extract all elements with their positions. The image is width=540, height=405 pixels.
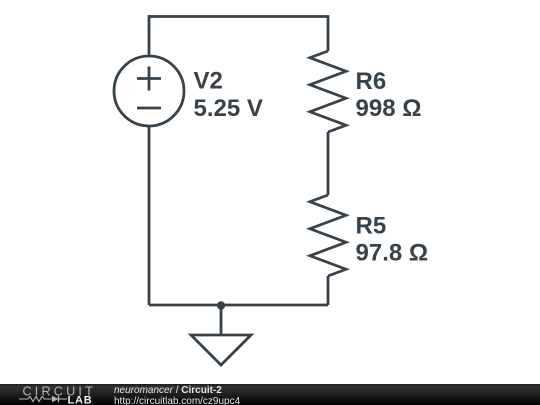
svg-text:998 Ω: 998 Ω [356, 95, 422, 122]
wire top rail [149, 15, 328, 18]
svg-text:neuromancer / Circuit-2: neuromancer / Circuit-2 [114, 385, 222, 396]
wire left bottom (V2 to bottom rail) [148, 126, 151, 305]
svg-text:http://circuitlab.com/cz9upc4: http://circuitlab.com/cz9upc4 [114, 396, 241, 405]
voltage source V2 [114, 56, 184, 126]
wire left top (top rail to V2) [148, 15, 151, 57]
svg-text:R6: R6 [356, 68, 387, 95]
logo diode [52, 396, 67, 402]
wire right top (top rail to R6) [327, 15, 330, 51]
wire ground stub [220, 305, 223, 335]
resistor R6 [310, 51, 346, 132]
resistor R5 [310, 195, 346, 276]
logo resistor zigzag [19, 397, 52, 402]
wire bottom rail [149, 304, 328, 307]
wire middle right (R6 to R5) [327, 132, 330, 195]
wire right bottom (R5 to bottom rail) [327, 276, 330, 305]
ground [191, 335, 251, 365]
svg-text:97.8 Ω: 97.8 Ω [356, 240, 429, 267]
svg-text:LAB: LAB [68, 395, 93, 405]
svg-text:R5: R5 [356, 213, 387, 240]
node junction dot [217, 301, 225, 309]
svg-text:V2: V2 [194, 68, 223, 95]
svg-text:5.25 V: 5.25 V [194, 95, 263, 122]
